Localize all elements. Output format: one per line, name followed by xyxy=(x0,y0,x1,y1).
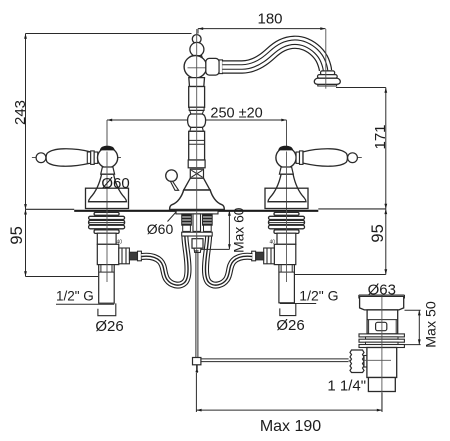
dimension 171 right xyxy=(336,88,387,209)
dimension Max 60 xyxy=(201,211,231,250)
right escutcheon inner line xyxy=(268,201,306,203)
svg-text:Ø26: Ø26 xyxy=(276,317,304,334)
dimension 243 left xyxy=(24,34,191,210)
left valve centerline xyxy=(106,120,108,282)
right handle body xyxy=(303,149,347,166)
deck line thin left xyxy=(26,208,75,210)
deck line thick center xyxy=(74,210,318,212)
left handle crosshair xyxy=(32,157,121,159)
arm socket xyxy=(206,58,219,75)
spout bell lip xyxy=(318,84,337,86)
svg-text:40: 40 xyxy=(117,239,123,245)
arm nut band xyxy=(219,60,222,74)
deck line thin right xyxy=(318,208,386,210)
svg-text:1/2" G: 1/2" G xyxy=(56,289,94,304)
tee crosshair xyxy=(188,67,220,69)
svg-text:243: 243 xyxy=(12,100,29,125)
dimension Max 50 xyxy=(405,310,421,344)
drain flange xyxy=(360,296,404,310)
spout finial small ball xyxy=(192,35,201,44)
right hose nut xyxy=(264,248,275,264)
dimension 95 left xyxy=(24,209,98,276)
right valve shank walls xyxy=(278,212,295,233)
spout bell collar 1 xyxy=(321,71,335,75)
180 extension / bell centerline xyxy=(325,29,327,89)
drain ring plate 2 xyxy=(359,339,404,342)
right handle end ball xyxy=(348,153,358,163)
column band xyxy=(189,107,204,110)
column neck 1 xyxy=(190,110,204,114)
left valve bonnet xyxy=(89,174,127,202)
right hose xyxy=(205,237,252,286)
spout finial ball xyxy=(190,42,204,56)
center shank tube xyxy=(193,214,201,232)
right valve cap xyxy=(278,146,293,151)
column barrel B xyxy=(189,131,205,160)
left valve neck xyxy=(101,167,115,174)
pull rod xyxy=(196,250,198,358)
drain neck inner walls xyxy=(369,320,397,334)
rod centerline into drain xyxy=(364,359,391,361)
left valve tube xyxy=(99,265,115,304)
spout tee ball xyxy=(184,56,207,79)
svg-text:Max 50: Max 50 xyxy=(424,301,440,348)
left valve centerline overlay xyxy=(106,152,108,210)
svg-text:Ø60: Ø60 xyxy=(147,221,174,237)
svg-text:40: 40 xyxy=(270,239,276,245)
center base plate xyxy=(176,211,218,214)
svg-text:171: 171 xyxy=(372,124,389,149)
svg-text:1/2" G: 1/2" G xyxy=(299,288,338,304)
column barrel A xyxy=(189,87,205,108)
svg-text:Max 60: Max 60 xyxy=(232,207,247,253)
left valve centerline below deck xyxy=(106,211,108,282)
right valve shank bars xyxy=(269,212,305,233)
drain bottom tube xyxy=(368,378,395,392)
left valve shank bars xyxy=(89,212,125,233)
left valve port block xyxy=(97,244,119,264)
right hose collar xyxy=(252,251,256,261)
center connector tube xyxy=(194,248,201,252)
drain neck xyxy=(367,310,398,334)
right stud xyxy=(203,214,213,232)
column nut box with cross xyxy=(190,169,203,178)
right valve centerline overlay xyxy=(286,152,288,210)
right handle crosshair xyxy=(276,157,362,159)
left escutcheon inner line xyxy=(88,201,126,203)
washer plate xyxy=(182,232,213,236)
left hose olive xyxy=(129,252,137,260)
drain centerline overlay xyxy=(381,297,383,410)
column bulge ring xyxy=(188,114,206,127)
Ø26 bracket right xyxy=(280,303,296,315)
left handle end ball xyxy=(36,153,46,163)
right valve bonnet xyxy=(268,174,306,202)
finial collar xyxy=(192,56,203,59)
spout tube xyxy=(222,42,325,70)
left hose xyxy=(141,237,188,286)
drain tailpiece xyxy=(367,348,397,378)
horizontal linkage rod xyxy=(201,359,390,362)
dimension 95 right xyxy=(295,209,387,275)
leader Ø60 center xyxy=(168,212,177,222)
column neck 2 xyxy=(190,127,204,131)
leader 1/2G left xyxy=(56,303,114,305)
drain ring plate 1 xyxy=(359,334,404,337)
drain ring band 2 xyxy=(366,342,399,344)
right valve ball xyxy=(276,148,296,168)
drain centerline xyxy=(381,295,383,409)
rod clamp xyxy=(193,358,201,365)
rod tip ball xyxy=(196,370,199,373)
svg-text:Max 190: Max 190 xyxy=(260,418,321,435)
svg-text:Ø60: Ø60 xyxy=(101,175,129,192)
left valve ball xyxy=(98,148,118,168)
spout centerline xyxy=(196,29,198,250)
right valve tube xyxy=(279,265,295,303)
left valve shank walls xyxy=(98,212,115,233)
left stud xyxy=(182,214,192,232)
left valve body below deck xyxy=(97,233,116,244)
svg-text:1 1/4": 1 1/4" xyxy=(327,378,366,395)
right handle neck rings xyxy=(296,151,303,165)
knurled joint xyxy=(350,350,364,373)
right valve neck xyxy=(279,167,293,174)
left valve cap xyxy=(100,146,115,151)
dimension 180 top xyxy=(198,27,326,33)
right valve port block xyxy=(274,244,296,264)
dimension 250 +/-20 xyxy=(107,119,287,147)
knurl stem xyxy=(364,356,367,368)
right valve centerline xyxy=(286,120,288,282)
column barrel B ridge 1 xyxy=(189,139,205,141)
dimension Max 190 xyxy=(196,373,382,412)
Ø26 bracket left xyxy=(98,303,116,315)
drain ring band 1 xyxy=(366,337,399,339)
svg-text:Ø26: Ø26 xyxy=(95,318,123,335)
column collar xyxy=(188,160,205,168)
rod tip xyxy=(196,365,198,371)
dimension Ø63 xyxy=(359,295,405,299)
column barrel B ridge 2 xyxy=(189,143,205,145)
drain neck step xyxy=(367,319,398,321)
column neck below tee xyxy=(189,78,205,87)
column skirt xyxy=(184,178,210,190)
left handle body xyxy=(46,149,90,166)
spout bell body xyxy=(314,78,340,84)
drain overflow window xyxy=(376,322,387,330)
center connector nut xyxy=(192,239,203,249)
left hose nut xyxy=(119,248,130,264)
right escutcheon xyxy=(265,188,308,208)
right valve body below deck xyxy=(277,233,296,244)
right hose olive xyxy=(256,252,264,260)
column centerline overlay xyxy=(196,33,198,209)
svg-text:95: 95 xyxy=(369,224,387,242)
right valve centerline below deck xyxy=(286,211,288,282)
left escutcheon xyxy=(86,188,129,208)
column base bell xyxy=(170,190,225,209)
svg-text:180: 180 xyxy=(257,11,282,28)
svg-text:95: 95 xyxy=(8,226,26,244)
left handle neck rings xyxy=(87,151,97,165)
drain ring plate 3 xyxy=(359,345,404,348)
svg-text:250 ±20: 250 ±20 xyxy=(210,106,262,122)
pop-up knob xyxy=(166,170,179,190)
leader 1/2G right xyxy=(280,303,316,305)
center shank centerline overlay xyxy=(196,211,198,252)
left hose collar xyxy=(138,251,142,261)
spout bell collar 2 xyxy=(318,75,338,79)
